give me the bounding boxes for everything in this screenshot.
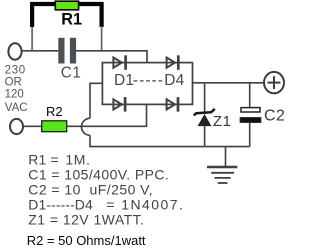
svg-text:Z1 = 12V 1WATT.: Z1 = 12V 1WATT.	[28, 211, 144, 227]
bridge rectifier box D1-D4	[102, 63, 192, 105]
ground	[207, 147, 237, 183]
svg-text:C1 = 105/400V. PPC.: C1 = 105/400V. PPC.	[28, 166, 169, 182]
svg-text:OR: OR	[5, 77, 22, 89]
terminal J2 (AC input bottom)	[10, 119, 23, 134]
svg-text:120: 120	[5, 89, 24, 101]
svg-text:D1: D1	[114, 72, 134, 89]
svg-text:-----: -----	[133, 72, 164, 89]
svg-text:VAC: VAC	[5, 102, 28, 114]
label 230 OR 120 VAC	[5, 65, 28, 115]
svg-text:C2: C2	[264, 108, 285, 125]
svg-text:D4: D4	[164, 72, 184, 89]
wire (J2 to R2)	[23, 125, 42, 127]
diode D3	[113, 97, 125, 112]
wire hop (crossover arc)	[82, 118, 91, 135]
terminal J3 (+ output)	[264, 72, 284, 93]
svg-text:R2: R2	[46, 104, 63, 119]
wire (R1 left lead thick)	[32, 4, 55, 27]
wire (R1 right lead thin)	[101, 26, 103, 51]
wire (bridge right DC tap to + terminal)	[193, 82, 265, 84]
diode D2	[167, 55, 179, 70]
capacitor C1	[58, 38, 76, 64]
wire (J1 to C1)	[22, 50, 59, 52]
svg-text:230: 230	[5, 65, 26, 77]
svg-text:C2 = 10 uF/250 V,: C2 = 10 uF/250 V,	[28, 181, 153, 197]
wire (left tap down to bottom rail)	[90, 135, 250, 146]
zener diode Z1	[194, 83, 215, 147]
resistor R2	[42, 121, 67, 132]
svg-text:= 1N4007.: = 1N4007.	[106, 196, 184, 212]
diode D1	[113, 55, 125, 70]
wire (R1 left lead thin)	[31, 26, 33, 51]
wire (C1 to bridge top tap)	[76, 51, 147, 63]
svg-text:R1 =: R1 =	[28, 151, 59, 167]
svg-text:C1: C1	[61, 64, 82, 81]
parts list values	[28, 151, 184, 227]
terminal J1 (AC input top)	[8, 43, 21, 59]
svg-text:Z1: Z1	[213, 113, 232, 130]
wire (R1 right lead thick)	[78, 4, 101, 27]
diode D4	[167, 97, 178, 112]
wire (bridge left DC tap)	[90, 83, 102, 118]
capacitor C2	[240, 83, 261, 147]
resistor R1	[55, 1, 78, 10]
svg-text:R2 = 50 Ohms/1watt: R2 = 50 Ohms/1watt	[27, 233, 146, 248]
wire (R2 to bridge bottom tap)	[67, 104, 147, 126]
svg-text:1M.: 1M.	[65, 151, 90, 167]
svg-text:D1------D4: D1------D4	[28, 196, 93, 212]
svg-text:R1: R1	[61, 11, 82, 29]
